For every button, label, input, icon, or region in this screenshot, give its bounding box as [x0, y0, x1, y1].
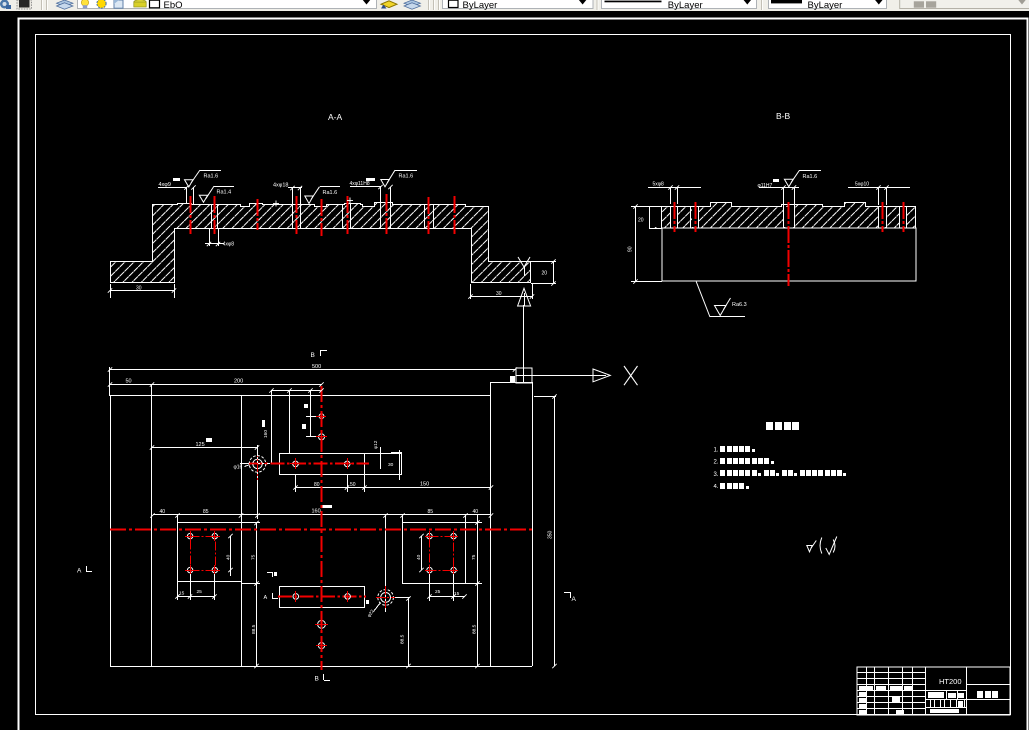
right small dim 30 of top slot [399, 450, 401, 480]
svg-text:88.5: 88.5 [400, 634, 406, 644]
layer previous icon [404, 0, 421, 6]
svg-text:ByLayer: ByLayer [808, 0, 843, 11]
svg-text:B: B [315, 676, 319, 683]
B-B hatched top band with bosses [650, 203, 916, 229]
sun icon [97, 0, 106, 8]
svg-text:40: 40 [160, 509, 166, 515]
UCS Y letter [518, 257, 530, 276]
left grid rows [857, 672, 925, 674]
svg-text:160: 160 [312, 508, 321, 514]
svg-text:50: 50 [126, 379, 132, 385]
right square corner hole circles [427, 533, 457, 572]
svg-text:80: 80 [314, 482, 320, 488]
section mark A right [564, 592, 571, 598]
lower center red hole circles [315, 618, 328, 651]
B-B bottom roughness leader Ra6.3 [696, 282, 745, 317]
dim 150 [365, 487, 491, 489]
svg-text:Ra1.6: Ra1.6 [399, 174, 414, 180]
svg-text:5xφ10: 5xφ10 [855, 182, 869, 188]
B-B dim 5xphi10 [848, 188, 910, 206]
layer combo arrow [363, 0, 370, 5]
svg-text:88.5: 88.5 [472, 624, 478, 634]
upper center red hole circles [316, 411, 327, 442]
plot cylinder icon [134, 0, 146, 4]
svg-text:HT200: HT200 [939, 677, 962, 686]
B-B red centerlines [675, 202, 904, 286]
svg-text:88.5: 88.5 [251, 624, 257, 634]
plan dim 50 / 200 [109, 384, 322, 386]
bulb icon [81, 0, 88, 6]
plan top dim 500 [109, 367, 516, 396]
svg-text:20: 20 [542, 271, 548, 277]
svg-text:25: 25 [197, 589, 203, 595]
svg-text:160: 160 [263, 430, 269, 438]
svg-text:2.: 2. [714, 460, 719, 466]
dims 80 / 50 below top slot [296, 474, 366, 492]
svg-text:85: 85 [203, 509, 209, 515]
svg-text:1.: 1. [714, 448, 719, 454]
toolbar strip [0, 0, 1029, 11]
svg-text:30: 30 [496, 291, 502, 297]
left grid columns [866, 667, 868, 714]
svg-text:15: 15 [179, 591, 185, 597]
svg-text:75: 75 [471, 554, 477, 560]
title block part name blobs (fixture body) [977, 691, 998, 698]
svg-text:φ16: φ16 [234, 465, 243, 471]
A-A left foot width dim [110, 284, 175, 298]
A-A top edge point markers [273, 198, 353, 207]
B-B dim 5xphi8 [648, 188, 701, 205]
svg-text:500: 500 [312, 364, 321, 370]
lineweight combo box [769, 0, 887, 9]
B-B lower body rectangle [662, 228, 916, 281]
technical requirements title (CJK glyph blobs) [766, 422, 799, 430]
toolbar separators [42, 0, 47, 10]
A-A roughness symbol Ra1.6 (left) [185, 170, 222, 187]
A-A dim 4xphi9 [158, 187, 194, 204]
svg-text:25: 25 [435, 589, 441, 595]
svg-text:200: 200 [234, 379, 243, 385]
svg-text:Ra1.6: Ra1.6 [204, 173, 219, 179]
UCS Y axis arrow [523, 305, 525, 368]
long chained dim line 40/85/160/85/40 [153, 515, 491, 524]
right boss rectangle [403, 523, 466, 584]
svg-text:EbO: EbO [164, 0, 183, 11]
B-B dim phi11H7 + roughness Ra1.6 [759, 187, 799, 204]
svg-text:350: 350 [548, 530, 554, 539]
UCS origin box [516, 368, 532, 383]
pin2 vertical dim 88.5 [408, 598, 410, 666]
toolbar layers icon [57, 0, 74, 6]
surface finish summary marks [807, 537, 837, 555]
svg-text:40: 40 [416, 554, 422, 560]
freeze/page icon [114, 0, 123, 8]
middle and right section lines [966, 667, 968, 714]
plot style combo box (disabled) [900, 0, 1029, 9]
A-A hole wall lines in band [212, 203, 434, 228]
svg-text:90: 90 [628, 246, 634, 252]
svg-text:4xφ18: 4xφ18 [273, 183, 289, 189]
UCS X axis arrow [532, 375, 593, 377]
svg-text:30: 30 [136, 286, 142, 292]
UCS X letter [624, 366, 638, 385]
B-B hole gaps [671, 207, 906, 227]
toolbar dark square icon [17, 0, 32, 9]
svg-text:φ12: φ12 [373, 440, 379, 449]
color combo box [443, 0, 594, 9]
main red centerline horizontal [110, 529, 534, 531]
layer color swatch [150, 0, 160, 8]
top slot red hole circles [290, 458, 353, 469]
plan small chained dim above top slot [271, 390, 322, 464]
plan view outline [110, 382, 533, 667]
top slot red centerline [249, 463, 369, 465]
svg-text:5xφ8: 5xφ8 [653, 182, 665, 188]
svg-text:B-B: B-B [776, 111, 791, 121]
title block small text blobs [859, 686, 964, 714]
svg-text:Ra1.4: Ra1.4 [217, 189, 232, 195]
svg-text:A: A [572, 596, 577, 603]
B blob near right band top [510, 376, 515, 382]
separator [596, 0, 598, 10]
A-A dim 4xphi18 [288, 188, 302, 205]
A-A roughness symbol Ra1.6 (right) [381, 170, 417, 187]
right boss dims [422, 514, 483, 666]
svg-text:φ11H7: φ11H7 [758, 183, 773, 189]
left square corner hole circles [187, 533, 217, 572]
left boss rectangle [178, 523, 242, 582]
svg-text:4xφ11H8: 4xφ11H8 [350, 181, 370, 187]
svg-text:Ra6.3: Ra6.3 [732, 302, 747, 308]
toolbar gear icon [0, 0, 9, 9]
dimension tick slashes [108, 185, 889, 668]
svg-text:B: B [311, 352, 315, 359]
svg-text:85: 85 [428, 509, 434, 515]
svg-text:50: 50 [350, 482, 356, 488]
svg-text:75: 75 [251, 554, 257, 560]
svg-text:4xφ8: 4xφ8 [223, 241, 235, 247]
svg-text:4.: 4. [714, 484, 719, 490]
svg-text:A-A: A-A [328, 112, 343, 122]
B-B left height dims 20 / 90 [631, 207, 662, 282]
A-A right foot width dim [470, 284, 533, 299]
dim 125 to pin1 [152, 447, 258, 456]
svg-text:A: A [264, 595, 268, 601]
svg-text:125: 125 [196, 442, 205, 448]
main red centerline vertical (B-B cut) [321, 386, 323, 670]
lower slot red centerline [278, 596, 366, 598]
make layer current icon [381, 1, 397, 8]
A-A dim 4xphi8 below band [205, 228, 224, 246]
plan top slot rectangle [280, 454, 402, 475]
svg-text:3.: 3. [714, 472, 719, 478]
lower slot rectangle [280, 587, 365, 608]
A-A right foot height dim 20 [531, 261, 556, 284]
svg-text:ByLayer: ByLayer [668, 0, 703, 11]
A-A hat-shaped section body (hatched) [111, 203, 531, 283]
left red bolt square [191, 537, 216, 571]
small A marks near lower slot [267, 572, 273, 577]
A-A dim 4xphi11H8 [350, 187, 391, 204]
svg-text:ByLayer: ByLayer [463, 0, 498, 11]
B-B unhatched left cell [650, 207, 661, 227]
A-A roughness symbol Ra1.4 [199, 186, 234, 202]
svg-text:20: 20 [638, 218, 644, 224]
right red bolt square [430, 537, 454, 571]
svg-text:A: A [77, 568, 82, 575]
separator [761, 0, 763, 10]
left boss dims [178, 523, 261, 667]
svg-text:30: 30 [388, 462, 394, 468]
layer state combo box [78, 0, 377, 9]
locating pin symbol 2 [376, 515, 410, 612]
svg-text:40: 40 [226, 554, 232, 560]
linetype combo box [602, 0, 757, 9]
title block outline [857, 667, 1010, 715]
svg-text:Ra1.6: Ra1.6 [803, 174, 818, 180]
svg-text:15: 15 [454, 591, 460, 597]
svg-text:Ra1.6: Ra1.6 [323, 190, 338, 196]
svg-text:150: 150 [420, 481, 429, 487]
right overall dim 350 [554, 396, 556, 666]
pin2 leader text [374, 603, 381, 612]
lower slot red hole circles [293, 591, 350, 602]
separators [429, 0, 439, 10]
A-A red hole centerlines [191, 194, 455, 236]
A-A roughness symbol Ra1.6 (middle) [305, 187, 340, 204]
locating pin symbol 1 [240, 445, 270, 519]
svg-text:4xφ9: 4xφ9 [159, 182, 171, 188]
